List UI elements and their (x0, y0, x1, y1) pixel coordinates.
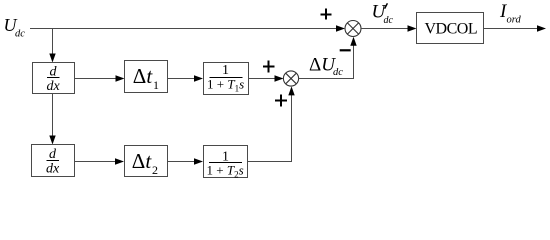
svg-text:1 + T2s: 1 + T2s (207, 162, 244, 179)
wire Udc main horizontal line to top summing junction (30, 25, 345, 31)
svg-text:dc: dc (333, 67, 343, 78)
block 1/(1+T2 s) (204, 146, 248, 180)
block 1/(1+T1 s) (204, 63, 249, 95)
wire middle junction output to top summing junction (299, 37, 357, 79)
svg-text:d: d (49, 147, 57, 162)
wire from upper d/dx bottom down to lower d/dx (49, 94, 55, 145)
node Udc (input label) (4, 15, 26, 40)
svg-text:2: 2 (152, 163, 158, 177)
wire upper d/dx to delta-t1 (75, 75, 125, 81)
svg-text:ord: ord (507, 15, 522, 26)
svg-text:Δt: Δt (132, 149, 153, 173)
summing junction S2 (middle) (283, 71, 298, 86)
svg-text:VDCOL: VDCOL (425, 21, 478, 38)
block d/dx (upper differentiator) (33, 63, 75, 95)
wire T1 lag output to middle summing junction (249, 75, 284, 81)
svg-text:Δt: Δt (133, 64, 154, 88)
wire branch down from Udc line to first d/dx (49, 29, 55, 63)
block delta-t1 (125, 61, 168, 93)
wire top junction output to VDCOL (361, 25, 417, 31)
svg-text:dx: dx (47, 79, 61, 94)
minus sign at top summing junction bottom input (340, 49, 351, 51)
svg-text:dx: dx (46, 162, 60, 177)
summing junction S1 (top) (345, 21, 361, 37)
svg-text:1 + T1s: 1 + T1s (207, 77, 244, 94)
wire delta-t2 to first-order lag T2 (168, 158, 204, 164)
block delta-t2 (125, 146, 168, 178)
svg-text:1: 1 (153, 78, 159, 92)
node U'dc label (372, 2, 394, 27)
node Iord label (499, 1, 521, 26)
svg-text:dc: dc (15, 29, 25, 40)
svg-text:dc: dc (384, 15, 394, 26)
block d/dx (lower differentiator) (32, 145, 75, 177)
plus sign at top summing junction left input (321, 9, 332, 20)
node delta-Udc label (309, 55, 343, 78)
plus sign at middle summing junction left input (263, 61, 275, 73)
wire VDCOL output Iord (484, 25, 547, 31)
plus sign at middle summing junction bottom input (275, 95, 287, 107)
wire delta-t1 to first-order lag T1 (168, 75, 204, 81)
wire lower d/dx to delta-t2 (75, 158, 125, 164)
wire T2 lag output up to middle summing junction bottom (248, 86, 295, 161)
block VDCOL U1 (417, 13, 484, 44)
